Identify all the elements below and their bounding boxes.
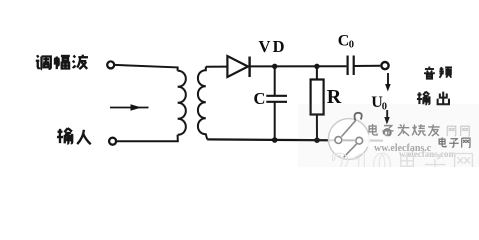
wire: junction down to resistor R — [316, 66, 318, 79]
wire: diode cathode to C0 — [250, 65, 347, 67]
label 调幅波 (AM wave input) — [36, 55, 88, 70]
svg-text:210: 210 — [330, 144, 393, 167]
watermark percent curl — [355, 113, 362, 121]
capacitor C — [266, 96, 287, 102]
watermark faint chars 网站 — [447, 126, 469, 136]
watermark percent circle right — [356, 137, 363, 144]
label 输出 (output) — [417, 92, 449, 105]
svg-text:C: C — [254, 89, 266, 108]
label 输入 (input) — [57, 128, 91, 144]
wire: input top to transformer primary — [115, 65, 178, 71]
signal flow arrow — [110, 104, 149, 110]
watermark text 电子网 small — [439, 138, 470, 148]
watermark percent slash lower — [344, 144, 357, 157]
capacitor C0 — [348, 56, 354, 76]
node: junction R top — [314, 64, 319, 69]
resistor R — [311, 80, 324, 115]
watermark text 电子发烧友 — [369, 124, 440, 136]
svg-text:0: 0 — [349, 40, 354, 51]
wire: junction down to capacitor C — [274, 66, 276, 95]
wire: bottom rail — [207, 139, 383, 140]
wire: resistor R to bottom rail — [316, 115, 318, 141]
svg-text:VD: VD — [259, 37, 287, 56]
transformer T primary coil — [178, 71, 186, 135]
input terminal bottom — [109, 138, 116, 145]
node: junction diode/C — [272, 64, 277, 69]
wire: C0 to output terminal — [354, 65, 381, 67]
watermark faint rail inside logo — [342, 139, 356, 141]
scan haze — [298, 104, 479, 167]
wire: secondary top to diode anode — [206, 66, 228, 68]
svg-text:C: C — [338, 33, 350, 50]
watermark percent slash upper — [342, 121, 356, 137]
node: junction R bottom — [314, 137, 320, 143]
input terminal top — [107, 61, 114, 68]
watermark percent circle left — [335, 137, 342, 144]
output terminal top — [381, 62, 388, 69]
node: junction C bottom — [272, 137, 278, 143]
diode VD — [227, 56, 249, 77]
voltage arrow U0 lower — [384, 110, 390, 125]
output terminal bottom — [384, 129, 391, 136]
watermark wash over rail right of logo — [361, 134, 393, 149]
voltage arrow U0 upper — [385, 73, 391, 92]
label 音频 (audio) — [424, 67, 452, 79]
wire: capacitor C to bottom rail — [274, 102, 276, 140]
watermark giant outline chars — [401, 152, 473, 174]
wire: primary bottom to input terminal — [117, 135, 178, 141]
watermark logo circle — [328, 119, 369, 160]
transformer T secondary coil — [198, 67, 207, 140]
